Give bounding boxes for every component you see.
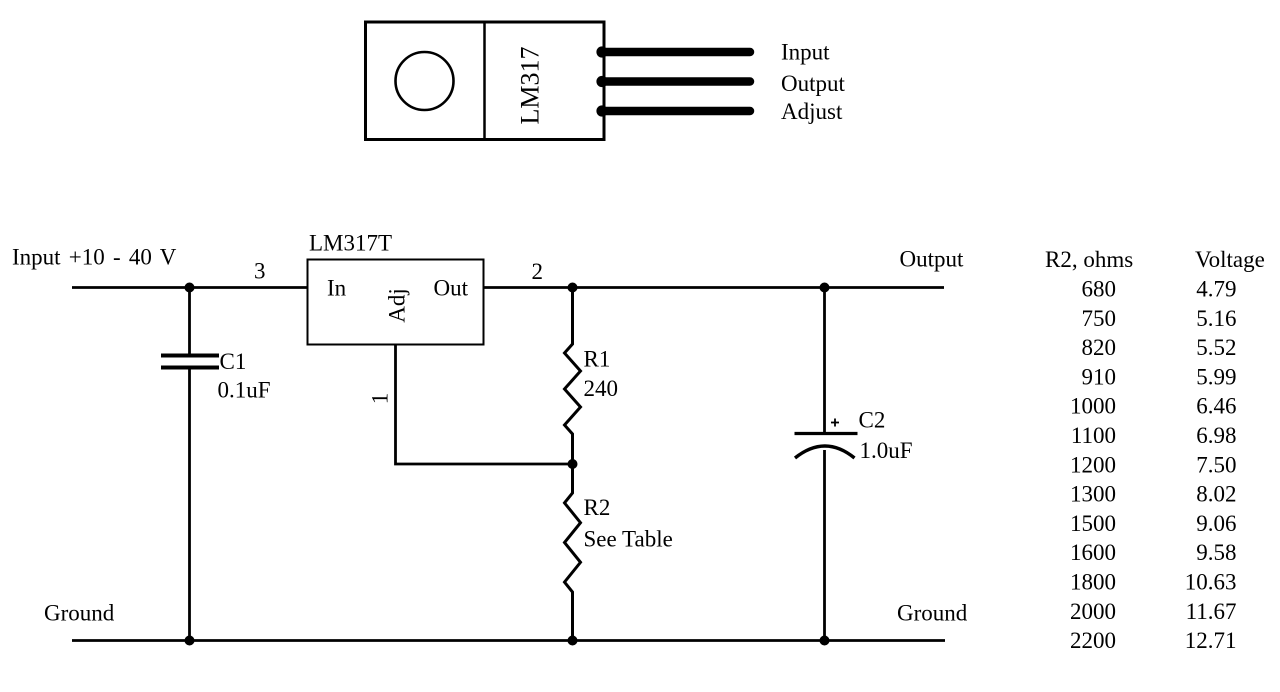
wire C1 bottom leg	[188, 369, 191, 641]
wire ground rail	[72, 639, 945, 642]
TO-220 package outline	[366, 22, 605, 140]
junction ground/C1	[185, 636, 195, 646]
svg-text:240: 240	[584, 376, 619, 401]
svg-text:1000: 1000	[1070, 394, 1116, 419]
svg-text:Out: Out	[434, 276, 469, 301]
svg-text:R2, ohms: R2, ohms	[1045, 247, 1133, 272]
svg-text:LM317: LM317	[516, 47, 545, 125]
table R2 vs Voltage	[1045, 247, 1265, 653]
svg-text:1200: 1200	[1070, 452, 1116, 477]
lead Output	[596, 76, 750, 87]
svg-text:0.1uF: 0.1uF	[218, 378, 271, 403]
lead Adjust	[596, 105, 750, 116]
svg-text:5.52: 5.52	[1196, 335, 1236, 360]
regulator U1 LM317T body	[308, 260, 484, 345]
svg-text:2200: 2200	[1070, 628, 1116, 653]
svg-text:1.0uF: 1.0uF	[860, 438, 913, 463]
svg-text:R2: R2	[584, 495, 611, 520]
svg-text:1600: 1600	[1070, 540, 1116, 565]
svg-text:910: 910	[1082, 364, 1117, 389]
svg-text:820: 820	[1082, 335, 1117, 360]
svg-text:7.50: 7.50	[1196, 452, 1236, 477]
svg-text:8.02: 8.02	[1196, 482, 1236, 507]
wire input rail	[72, 286, 308, 289]
capacitor C2 positive plate	[795, 432, 858, 435]
junction output/R1	[568, 283, 578, 293]
svg-text:R1: R1	[584, 347, 611, 372]
svg-text:Input +10 - 40 V: Input +10 - 40 V	[12, 245, 177, 270]
lead Input	[596, 46, 750, 57]
svg-text:9.58: 9.58	[1196, 540, 1236, 565]
svg-text:750: 750	[1082, 306, 1117, 331]
svg-text:1100: 1100	[1071, 423, 1116, 448]
svg-text:3: 3	[254, 259, 266, 284]
svg-text:2000: 2000	[1070, 599, 1116, 624]
capacitor C2 negative plate	[795, 446, 855, 458]
junction ground/R2	[568, 636, 578, 646]
wire C2 bottom leg	[823, 450, 826, 641]
svg-text:Adjust: Adjust	[781, 99, 843, 124]
resistor R1	[565, 288, 581, 465]
junction adjust/R1/R2	[568, 459, 578, 469]
svg-text:Output: Output	[781, 71, 846, 96]
svg-text:Input: Input	[781, 40, 830, 65]
svg-text:In: In	[327, 276, 347, 301]
svg-text:2: 2	[532, 259, 544, 284]
wire adjust pin	[396, 345, 573, 465]
svg-text:10.63: 10.63	[1185, 570, 1237, 595]
svg-text:1: 1	[368, 393, 393, 405]
svg-text:C2: C2	[859, 408, 886, 433]
svg-text:Ground: Ground	[44, 601, 115, 626]
svg-text:C1: C1	[220, 349, 247, 374]
svg-text:5.16: 5.16	[1196, 306, 1236, 331]
junction ground/C2	[820, 636, 830, 646]
svg-text:1300: 1300	[1070, 482, 1116, 507]
polarity plus sign	[831, 419, 839, 427]
svg-text:4.79: 4.79	[1196, 277, 1236, 302]
svg-text:See Table: See Table	[584, 527, 673, 552]
capacitor C1	[161, 356, 219, 368]
svg-text:Voltage: Voltage	[1195, 247, 1265, 272]
svg-text:11.67: 11.67	[1186, 599, 1237, 624]
svg-text:12.71: 12.71	[1185, 628, 1237, 653]
svg-text:5.99: 5.99	[1196, 364, 1236, 389]
svg-text:680: 680	[1082, 277, 1117, 302]
wire C1 top leg	[188, 288, 191, 355]
svg-text:6.46: 6.46	[1196, 394, 1236, 419]
wire output rail	[484, 286, 945, 289]
mounting hole	[396, 52, 454, 110]
svg-text:1800: 1800	[1070, 570, 1116, 595]
svg-text:Ground: Ground	[897, 601, 968, 626]
wire C2 top leg	[823, 288, 826, 434]
svg-text:Adj: Adj	[385, 288, 410, 323]
resistor R2	[565, 464, 581, 641]
svg-text:1500: 1500	[1070, 511, 1116, 536]
junction output/C2	[820, 283, 830, 293]
junction input/C1	[185, 283, 195, 293]
svg-text:LM317T: LM317T	[309, 231, 392, 256]
svg-text:Output: Output	[900, 247, 965, 272]
package tab divider line	[483, 22, 486, 140]
svg-text:6.98: 6.98	[1196, 423, 1236, 448]
svg-text:9.06: 9.06	[1196, 511, 1236, 536]
